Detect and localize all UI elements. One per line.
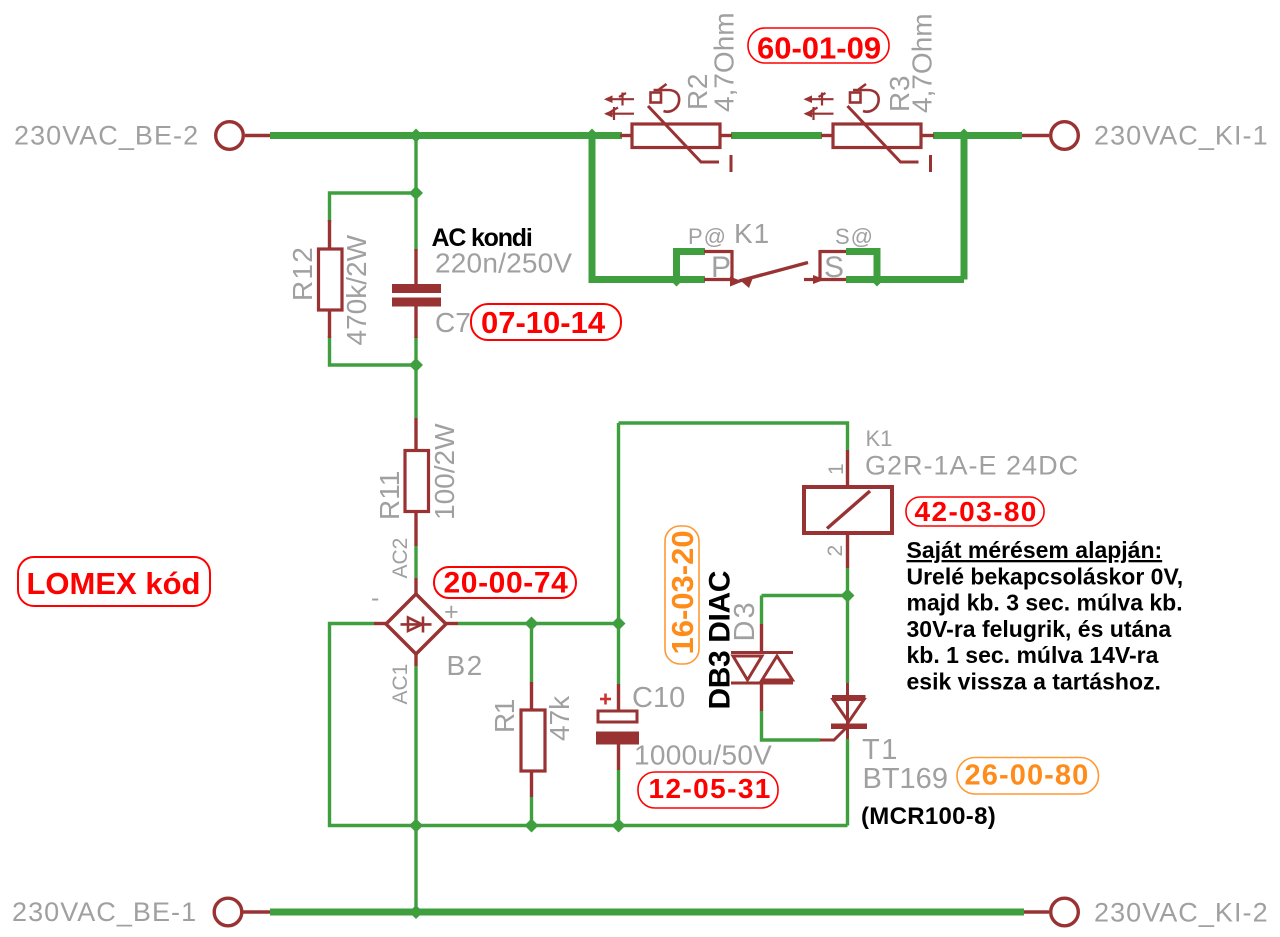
svg-text:42-03-80: 42-03-80 <box>915 496 1038 527</box>
svg-text:220n/250V: 220n/250V <box>435 248 572 279</box>
svg-text:2: 2 <box>824 545 847 557</box>
svg-text:esik vissza a tartáshoz.: esik vissza a tartáshoz. <box>907 669 1161 695</box>
svg-text:470k/2W: 470k/2W <box>341 234 372 345</box>
svg-text:Urelé bekapcsoláskor 0V,: Urelé bekapcsoláskor 0V, <box>907 563 1184 589</box>
svg-text:12-05-31: 12-05-31 <box>649 773 772 804</box>
svg-text:4,7Ohm: 4,7Ohm <box>907 13 938 113</box>
svg-text:230VAC_BE-1: 230VAC_BE-1 <box>12 897 197 927</box>
svg-text:S@: S@ <box>835 224 874 249</box>
svg-text:DB3 DIAC: DB3 DIAC <box>704 571 737 709</box>
svg-text:4,7Ohm: 4,7Ohm <box>709 12 740 112</box>
svg-text:1000u/50V: 1000u/50V <box>634 740 772 771</box>
svg-text:16-03-20: 16-03-20 <box>665 530 700 654</box>
svg-text:C7: C7 <box>435 307 471 338</box>
svg-text:C10: C10 <box>632 682 685 714</box>
svg-text:+: + <box>444 598 459 626</box>
svg-text:B2: B2 <box>447 650 484 681</box>
svg-text:(MCR100-8): (MCR100-8) <box>861 803 996 830</box>
svg-text:Saját mérésem alapján:: Saját mérésem alapján: <box>907 537 1163 563</box>
svg-text:47k: 47k <box>544 695 575 741</box>
svg-text:BT169: BT169 <box>863 763 948 795</box>
svg-text:230VAC_KI-1: 230VAC_KI-1 <box>1094 120 1269 150</box>
svg-text:07-10-14: 07-10-14 <box>481 305 606 340</box>
svg-text:K1: K1 <box>866 426 893 451</box>
svg-text:230VAC_BE-2: 230VAC_BE-2 <box>14 120 199 150</box>
svg-text:AC kondi: AC kondi <box>432 224 532 252</box>
svg-text:AC1: AC1 <box>389 664 412 705</box>
svg-text:-: - <box>371 584 379 612</box>
svg-text:G2R-1A-E 24DC: G2R-1A-E 24DC <box>865 451 1079 481</box>
svg-text:100/2W: 100/2W <box>429 423 460 520</box>
svg-text:26-00-80: 26-00-80 <box>965 760 1090 792</box>
svg-text:R12: R12 <box>287 246 318 301</box>
svg-text:R1: R1 <box>489 699 520 733</box>
svg-text:R11: R11 <box>374 471 405 520</box>
svg-text:LOMEX kód: LOMEX kód <box>27 566 201 601</box>
svg-text:majd kb. 3 sec. múlva kb.: majd kb. 3 sec. múlva kb. <box>907 590 1183 616</box>
svg-text:T1: T1 <box>862 734 899 766</box>
svg-text:20-00-74: 20-00-74 <box>444 567 569 600</box>
svg-text:P: P <box>711 251 731 284</box>
svg-text:kb. 1 sec. múlva 14V-ra: kb. 1 sec. múlva 14V-ra <box>907 642 1159 668</box>
svg-text:K1: K1 <box>734 218 770 249</box>
svg-text:60-01-09: 60-01-09 <box>757 31 881 66</box>
svg-text:S: S <box>824 251 844 284</box>
svg-text:AC2: AC2 <box>389 538 412 579</box>
svg-text:P@: P@ <box>688 224 727 249</box>
svg-text:30V-ra felugrik, és utána: 30V-ra felugrik, és utána <box>907 616 1172 642</box>
svg-text:1: 1 <box>825 463 848 475</box>
svg-text:230VAC_KI-2: 230VAC_KI-2 <box>1094 898 1269 928</box>
